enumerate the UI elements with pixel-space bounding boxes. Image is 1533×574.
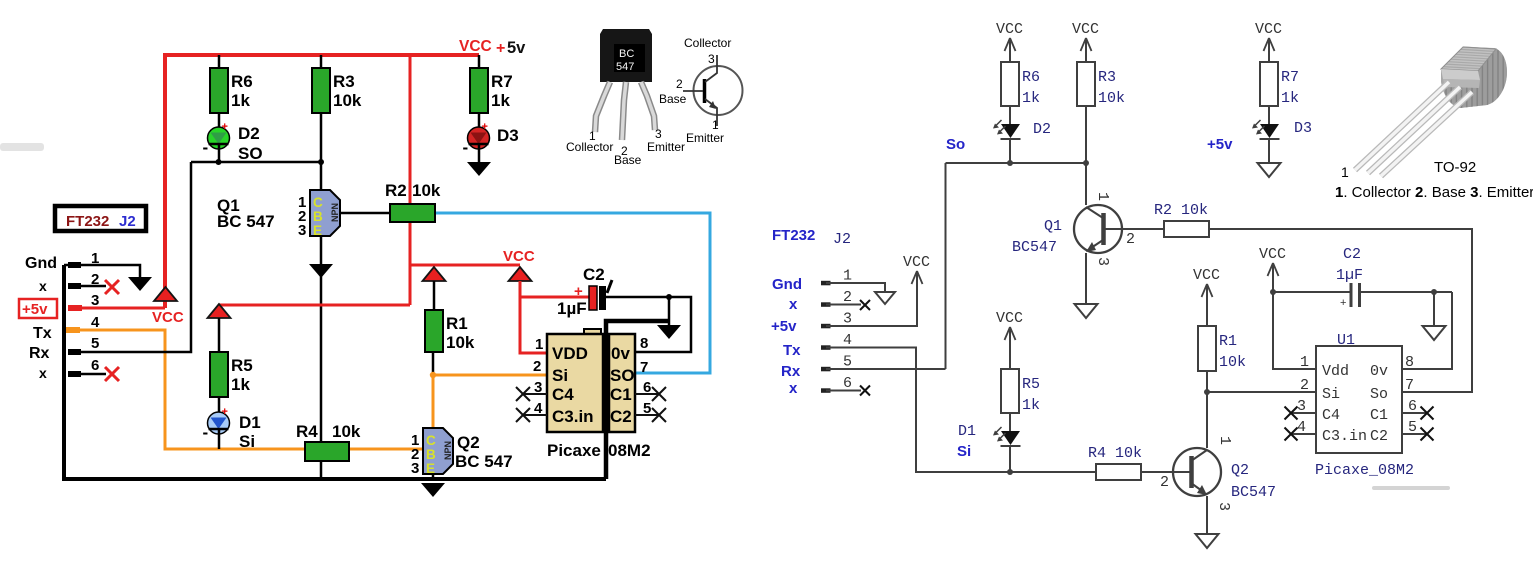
svg-text:FT232: FT232 xyxy=(772,227,815,244)
wire Q1 emitter to ground (right) xyxy=(1085,253,1087,304)
svg-text:1: 1 xyxy=(1216,436,1233,445)
svg-text:+: + xyxy=(222,121,228,133)
svg-text:+: + xyxy=(574,283,583,300)
resistor R3 (right) xyxy=(1077,62,1095,106)
wire Q1 base to R2 xyxy=(341,212,390,215)
svg-text:6: 6 xyxy=(843,375,852,392)
svg-text:-: - xyxy=(203,423,209,442)
node SO wire D2/R3/Rx xyxy=(191,161,322,164)
wire pin5 Rx (right) xyxy=(826,368,946,370)
svg-text:R6: R6 xyxy=(1022,69,1040,86)
svg-text:3: 3 xyxy=(91,292,99,309)
svg-text:Emitter: Emitter xyxy=(647,140,685,154)
svg-text:Q1: Q1 xyxy=(1044,218,1062,235)
svg-text:R7: R7 xyxy=(1281,69,1299,86)
svg-text:1k: 1k xyxy=(1022,397,1040,414)
svg-text:BC547: BC547 xyxy=(1012,239,1057,256)
resistor R3 10k xyxy=(320,55,323,68)
ground arrow below D3 xyxy=(467,162,491,176)
TO-92 package picture xyxy=(1441,46,1507,110)
ground arrow below Q1 xyxy=(309,264,333,278)
svg-text:C2: C2 xyxy=(1343,246,1361,263)
wire Tx orange xyxy=(68,330,423,449)
LED D2 (right) xyxy=(1001,124,1020,138)
svg-text:R6: R6 xyxy=(231,72,253,91)
svg-text:1: 1 xyxy=(1300,354,1309,371)
svg-text:VCC: VCC xyxy=(996,310,1023,327)
svg-text:VCC: VCC xyxy=(1072,21,1099,38)
svg-text:+5v: +5v xyxy=(771,318,797,335)
svg-text:-: - xyxy=(463,138,469,157)
svg-text:So: So xyxy=(946,136,965,153)
power symbol VCC above R5 xyxy=(208,304,231,318)
ground arrow at J2 pin 1 xyxy=(128,277,152,291)
svg-text:Rx: Rx xyxy=(781,363,801,380)
svg-text:Tx: Tx xyxy=(33,325,52,342)
svg-text:0v: 0v xyxy=(1370,363,1388,380)
svg-text:+5v: +5v xyxy=(22,301,48,318)
svg-text:Collector: Collector xyxy=(684,36,731,50)
svg-text:1: 1 xyxy=(712,118,719,132)
svg-text:Si: Si xyxy=(1322,386,1340,403)
wire SO blue R2 to pin 7 xyxy=(435,213,710,373)
svg-text:R7: R7 xyxy=(491,72,513,91)
svg-text:B: B xyxy=(313,209,323,224)
svg-text:2: 2 xyxy=(676,77,683,91)
svg-text:VCC: VCC xyxy=(1193,267,1220,284)
wire VCC drop x410 xyxy=(409,56,412,305)
wire 0v net C2 to pin 8 xyxy=(606,297,691,352)
LED D3 xyxy=(468,127,490,149)
svg-text:3: 3 xyxy=(411,460,419,477)
svg-text:x: x xyxy=(789,296,798,313)
transistor Q2 BC547 xyxy=(423,428,453,474)
svg-text:BC: BC xyxy=(619,48,634,60)
svg-text:4: 4 xyxy=(843,332,852,349)
svg-text:10k: 10k xyxy=(1098,90,1125,107)
svg-text:Rx: Rx xyxy=(29,345,50,362)
svg-text:1: 1 xyxy=(535,336,543,353)
wire Rx to SO node xyxy=(74,162,191,352)
svg-text:NPN: NPN xyxy=(330,203,340,222)
svg-text:-: - xyxy=(203,138,209,157)
svg-text:3: 3 xyxy=(1215,502,1232,511)
svg-text:0v: 0v xyxy=(611,344,630,363)
svg-text:R2: R2 xyxy=(385,181,407,200)
BC547 symbol diagram xyxy=(694,66,743,115)
svg-text:2: 2 xyxy=(1160,474,1169,491)
svg-text:C3.in: C3.in xyxy=(552,407,594,426)
svg-text:3: 3 xyxy=(655,127,662,141)
resistor R2 10k xyxy=(390,204,435,222)
wire pin4 Tx (right) xyxy=(826,348,1096,473)
svg-text:D3: D3 xyxy=(497,126,519,145)
svg-text:+: + xyxy=(222,406,228,418)
pin2 nc (right) xyxy=(826,304,861,306)
svg-text:+5v: +5v xyxy=(1207,136,1233,153)
svg-text:C1: C1 xyxy=(610,385,632,404)
svg-text:D3: D3 xyxy=(1294,120,1312,137)
svg-text:6: 6 xyxy=(91,357,99,374)
ground Q1 (right) xyxy=(1075,304,1098,318)
svg-text:C2: C2 xyxy=(610,407,632,426)
svg-text:R5: R5 xyxy=(231,356,253,375)
svg-text:x: x xyxy=(789,380,798,397)
resistor R5 1k xyxy=(210,352,228,397)
wire Si orange node xyxy=(433,375,547,428)
svg-text:Picaxe: Picaxe xyxy=(547,441,601,460)
svg-text:Gnd: Gnd xyxy=(772,276,802,293)
svg-text:Emitter: Emitter xyxy=(686,131,724,145)
svg-text:Si: Si xyxy=(957,443,971,460)
svg-text:5v: 5v xyxy=(507,39,526,57)
resistor R1 (right) xyxy=(1198,326,1216,371)
svg-text:Base: Base xyxy=(659,92,687,106)
TO-92 legs xyxy=(1355,82,1449,170)
svg-text:SO: SO xyxy=(610,366,635,385)
ground arrow below Q2 xyxy=(421,483,445,497)
wire pin1 to ground (right) xyxy=(826,283,885,292)
svg-text:BC547: BC547 xyxy=(1231,484,1276,501)
svg-text:2: 2 xyxy=(533,358,541,375)
svg-text:8: 8 xyxy=(640,335,648,352)
svg-text:Si: Si xyxy=(239,432,255,451)
svg-text:VCC: VCC xyxy=(996,21,1023,38)
svg-text:FT232: FT232 xyxy=(66,213,109,230)
IC U1 nc stubs xyxy=(1291,412,1316,414)
wire 0v pin8 (right) xyxy=(1402,292,1452,369)
connector J2 label box FT232 xyxy=(55,206,146,231)
svg-text:R4: R4 xyxy=(296,422,318,441)
wire VCC top rail xyxy=(165,55,479,308)
svg-text:7: 7 xyxy=(640,359,648,376)
svg-text:1: 1 xyxy=(1341,164,1349,180)
transistor Q2 (right) xyxy=(1173,448,1221,496)
svg-text:Q2: Q2 xyxy=(457,433,480,452)
svg-text:5: 5 xyxy=(91,335,99,352)
connector J2 (right) pins xyxy=(821,281,831,286)
svg-text:Q2: Q2 xyxy=(1231,462,1249,479)
wire pin3 to VCC (right) xyxy=(826,273,917,326)
svg-text:3: 3 xyxy=(708,52,715,66)
svg-text:R1: R1 xyxy=(1219,333,1237,350)
svg-text:10k: 10k xyxy=(446,333,475,352)
svg-text:BC 547: BC 547 xyxy=(217,212,275,231)
svg-text:4: 4 xyxy=(91,314,100,331)
svg-text:3: 3 xyxy=(298,222,306,239)
svg-text:10k: 10k xyxy=(332,422,361,441)
svg-text:TO-92: TO-92 xyxy=(1434,159,1476,176)
svg-text:Picaxe_08M2: Picaxe_08M2 xyxy=(1315,462,1414,479)
svg-text:1µF: 1µF xyxy=(557,299,587,318)
resistor R7 1k xyxy=(478,55,481,68)
ground at C2 (right) xyxy=(1433,292,1435,326)
svg-text:C2: C2 xyxy=(583,265,605,284)
wire R1 to Q2 collector + Si (right) xyxy=(1206,371,1208,448)
svg-text:2: 2 xyxy=(1300,377,1309,394)
svg-text:x: x xyxy=(39,365,47,381)
resistor R6 1k xyxy=(218,55,221,68)
svg-text:NPN: NPN xyxy=(443,441,453,460)
svg-text:R4 10k: R4 10k xyxy=(1088,445,1142,462)
svg-text:SO: SO xyxy=(238,144,263,163)
transistor Q1 BC547 xyxy=(310,190,340,236)
svg-text:C4: C4 xyxy=(552,385,574,404)
svg-text:+: + xyxy=(1340,297,1346,309)
svg-text:D2: D2 xyxy=(1033,121,1051,138)
LED D2 xyxy=(208,127,230,149)
svg-text:Tx: Tx xyxy=(783,342,801,359)
wire 0v to ground bus xyxy=(606,321,669,479)
svg-text:1: 1 xyxy=(1094,192,1111,201)
resistor R5 (right) xyxy=(1001,369,1019,413)
resistor R1 10k xyxy=(425,310,443,352)
svg-text:C3.in: C3.in xyxy=(1322,428,1367,445)
svg-text:J2: J2 xyxy=(119,213,136,230)
svg-text:1k: 1k xyxy=(231,375,250,394)
svg-text:1k: 1k xyxy=(1022,90,1040,107)
faint artifact streak left xyxy=(0,143,44,151)
resistor R6 (right) xyxy=(1001,62,1019,106)
ground arrow on 0v net xyxy=(668,297,671,325)
svg-text:+: + xyxy=(482,121,488,133)
svg-text:C1: C1 xyxy=(1370,407,1388,424)
wire J2 ground bus xyxy=(62,265,606,479)
wire VCC/Vdd net (right) xyxy=(1273,292,1452,369)
pin6 nc (right) xyxy=(826,390,861,392)
LED D1 (right) xyxy=(1001,431,1020,445)
svg-text:C2: C2 xyxy=(1370,428,1388,445)
power symbol VCC at J2 pin 3 xyxy=(154,287,177,301)
wire Q1 emitter to ground bus xyxy=(320,235,323,479)
LED D3 (right) xyxy=(1260,124,1279,138)
svg-text:D2: D2 xyxy=(238,124,260,143)
resistor R7 (right) xyxy=(1260,62,1278,106)
IC Picaxe 08M2 xyxy=(584,329,601,335)
svg-text:1. Collector 2. Base 3. Emit: 1. Collector 2. Base 3. Emitter xyxy=(1335,184,1533,201)
svg-text:R5: R5 xyxy=(1022,376,1040,393)
svg-text:C: C xyxy=(426,433,436,448)
svg-text:Vdd: Vdd xyxy=(1322,363,1349,380)
svg-text:D1: D1 xyxy=(239,413,261,432)
svg-text:BC 547: BC 547 xyxy=(455,452,513,471)
svg-text:1: 1 xyxy=(843,268,852,285)
svg-text:Gnd: Gnd xyxy=(25,255,57,272)
LED D1 xyxy=(208,412,230,434)
svg-text:2: 2 xyxy=(843,289,852,306)
wire R2 to pin 7 So (right) xyxy=(1209,229,1472,392)
svg-text:VCC: VCC xyxy=(1259,246,1286,263)
svg-text:+: + xyxy=(496,40,505,57)
svg-text:VCC: VCC xyxy=(1255,21,1282,38)
power symbol VCC for VDD xyxy=(509,267,532,281)
svg-text:10k: 10k xyxy=(1219,354,1246,371)
svg-text:1k: 1k xyxy=(491,91,510,110)
svg-text:2: 2 xyxy=(1126,231,1135,248)
svg-text:3: 3 xyxy=(843,311,852,328)
svg-text:10k: 10k xyxy=(333,91,362,110)
svg-text:C: C xyxy=(313,195,323,210)
svg-text:08M2: 08M2 xyxy=(608,441,651,460)
svg-text:1k: 1k xyxy=(1281,90,1299,107)
svg-text:1k: 1k xyxy=(231,91,250,110)
svg-text:1µF: 1µF xyxy=(1336,267,1363,284)
resistor R4 10k xyxy=(305,442,349,461)
svg-text:VCC: VCC xyxy=(152,309,184,326)
wire VCC branch R1/VDD xyxy=(409,264,520,267)
svg-text:B: B xyxy=(426,447,436,462)
svg-text:R3: R3 xyxy=(1098,69,1116,86)
svg-text:x: x xyxy=(39,278,47,294)
wire R3 to Q1 collector xyxy=(320,113,323,190)
wire VDD red xyxy=(520,281,589,353)
wire Q2 emitter to bus xyxy=(432,473,435,480)
svg-text:5: 5 xyxy=(843,354,852,371)
svg-text:So: So xyxy=(1370,386,1388,403)
svg-text:Si: Si xyxy=(552,366,568,385)
svg-text:R3: R3 xyxy=(333,72,355,91)
svg-text:R1: R1 xyxy=(446,314,468,333)
wire R3 to Q1 (right) xyxy=(1085,106,1087,205)
svg-text:VCC: VCC xyxy=(903,254,930,271)
IC unused pin stubs xyxy=(523,393,547,395)
BC547 package photo xyxy=(600,29,652,82)
svg-text:8: 8 xyxy=(1405,354,1414,371)
wire VCC branch to R5 xyxy=(219,304,410,307)
svg-text:J2: J2 xyxy=(833,231,851,248)
svg-text:3: 3 xyxy=(1094,257,1111,266)
svg-text:7: 7 xyxy=(1405,377,1414,394)
svg-text:10k: 10k xyxy=(412,181,441,200)
svg-text:R2 10k: R2 10k xyxy=(1154,202,1208,219)
svg-text:D1: D1 xyxy=(958,423,976,440)
svg-text:VCC: VCC xyxy=(459,38,492,55)
svg-text:VCC: VCC xyxy=(503,248,535,265)
svg-text:VDD: VDD xyxy=(552,344,588,363)
ground below D3 (right) xyxy=(1258,163,1281,177)
svg-text:Collector: Collector xyxy=(566,140,613,154)
svg-text:C4: C4 xyxy=(1322,407,1340,424)
faint artifact under Picaxe_08M2 xyxy=(1372,486,1450,490)
svg-text:Base: Base xyxy=(614,153,642,167)
transistor Q1 (right) xyxy=(1074,205,1122,253)
svg-text:547: 547 xyxy=(616,61,634,73)
wire Q2 emitter to ground (right) xyxy=(1206,496,1208,534)
power symbol VCC above R1 xyxy=(423,267,446,281)
